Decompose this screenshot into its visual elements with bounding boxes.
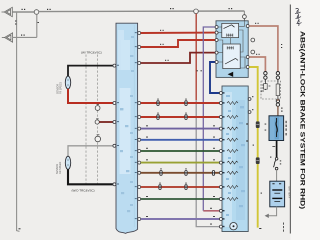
connector B on top wire: [194, 9, 199, 14]
splice circle (y139): [97, 134, 100, 136]
relay 2 (motor relay): [223, 44, 240, 69]
svg-text:(W/ TRC&VSC): (W/ TRC&VSC): [81, 51, 102, 55]
ABS ECU U1: [116, 23, 138, 233]
wire: battery to ground: [268, 207, 276, 216]
svg-text:BATTERY: BATTERY: [288, 187, 292, 199]
wire: red ECU to relay pin2 (step): [141, 40, 216, 47]
wire: navy relay to actuator: [210, 62, 220, 93]
ignition switch SW: [275, 158, 278, 161]
ECU left pins: [113, 64, 116, 186]
solenoid resistor symbols: [227, 102, 238, 201]
ground G2: [2, 33, 13, 42]
speed sensor S2: [65, 156, 70, 169]
wire: switch to battery: [276, 170, 278, 181]
wire labels near salmon: [255, 23, 282, 55]
actuator left pins: [219, 92, 222, 229]
wire: dark green row y151: [141, 150, 220, 152]
wire: S1 red to ECU: [68, 89, 113, 103]
relay left pins: [215, 26, 218, 64]
wire: maroon splice to ECU: [99, 121, 113, 123]
wire: drop to connector C: [243, 11, 245, 15]
wire: vertical below connector A: [36, 14, 38, 37]
wire: maroon ECU to relay pin3 (step): [141, 53, 216, 63]
fusible link connector stack 2: [276, 72, 279, 75]
ECU inner pin label ticks: [117, 32, 137, 219]
wire: red solenoid row y103: [141, 102, 220, 104]
svg-text:(W/O TRC&VSC): (W/O TRC&VSC): [72, 189, 95, 193]
fusible link FL1: [264, 79, 266, 90]
wire: salmon lower (relay to FL2): [249, 57, 265, 71]
speed sensor S1: [65, 76, 70, 89]
label ticks on top wire: [15, 8, 232, 229]
svg-text:ABS(ANTI-LOCK BRAKE SYSTEM FOR: ABS(ANTI-LOCK BRAKE SYSTEM FOR RHD): [299, 31, 306, 209]
wire: black fuse box to switch: [276, 141, 278, 158]
fuse symbol: [276, 122, 277, 133]
wire: connector C into relay: [243, 19, 245, 22]
connector A: [34, 10, 39, 15]
ground G1 (top left): [2, 7, 13, 16]
wire: brown FL to fuse box: [277, 99, 279, 116]
ground arrow: [265, 214, 269, 218]
svg-text:SENSOR: SENSOR: [57, 84, 60, 94]
wire: brown row y172.8: [141, 172, 220, 174]
wire: yellow taillight feed: [249, 67, 258, 228]
relay 1 (cut-off relay): [222, 23, 239, 37]
wire: red-brown row y187: [141, 186, 220, 188]
fusible link connector stack 1: [264, 72, 267, 75]
actuator inner pin nubs: [223, 92, 225, 227]
wire: G1 to connector A: [12, 11, 34, 13]
wire: S1 black to ECU: [68, 66, 113, 77]
wire: red vertical from connector B: [195, 14, 197, 100]
wire: green row y199: [141, 198, 220, 200]
fusible link FL2: [277, 79, 279, 99]
svg-text:SENSOR: SENSOR: [56, 164, 59, 174]
pump motor M: [230, 223, 237, 230]
relay arrow: [228, 72, 234, 77]
battery: [270, 181, 285, 207]
yellow wire ticks: [253, 91, 262, 229]
fusible link dashed box: [261, 81, 281, 99]
svg-text:RR SPEED: RR SPEED: [59, 162, 62, 174]
ABS relay block R1: [216, 21, 248, 78]
ECU right pins: [138, 32, 141, 221]
wire: S2 gray to ECU: [68, 146, 113, 157]
yellow wire connector block 1: [256, 121, 260, 128]
splice circle on dashed line (y108): [97, 104, 100, 106]
strip bottom ticks: [283, 223, 284, 232]
logo squiggle: [295, 8, 302, 25]
wire: gray continuation of vertical to pump motor row: [196, 100, 220, 227]
dashed option line 1: [85, 55, 87, 185]
wire: purple row y219: [141, 218, 220, 220]
dashed option line 2: [96, 55, 98, 185]
wire: red ECU to relay pin1: [141, 32, 216, 34]
wire: S2 black to ECU: [68, 169, 113, 184]
wire: blue row y139.8: [141, 139, 220, 141]
wire: purple vertical from relay to actuator (pink tail): [203, 27, 215, 211]
wire: G2 to vertical: [13, 36, 37, 38]
wire: purple row y128.6: [141, 128, 220, 130]
splice circle (y122): [96, 118, 98, 120]
svg-text:FR SPEED: FR SPEED: [60, 82, 63, 94]
actuator right edge pins: [248, 98, 251, 101]
title strip background: [291, 0, 320, 240]
ABS actuator A1: [222, 86, 248, 232]
fuse box / junction block: [269, 116, 284, 141]
connector labels ticks: [146, 99, 215, 225]
connector C above relay: [243, 15, 247, 19]
fuse labels: [265, 121, 287, 136]
relay internal links: [239, 21, 245, 26]
inline connector pairs: [157, 101, 215, 190]
wire: connector A to relay drop: [39, 10, 245, 13]
grommet circles right of relay: [251, 38, 255, 42]
wire: salmon loop top (relay to FL): [249, 26, 278, 71]
wire: olive row y162.6: [141, 162, 220, 164]
relay right pins: [246, 25, 249, 69]
connector pair under FL: [276, 99, 279, 102]
wire: long vertical gray W-B: [17, 13, 20, 232]
yellow wire connector block 2: [256, 157, 260, 164]
title strip divider line: [289, 5, 291, 234]
FL text ticks: [262, 85, 271, 92]
wire: red solenoid row y117: [141, 116, 220, 118]
wire label ticks top reds: [160, 30, 202, 72]
